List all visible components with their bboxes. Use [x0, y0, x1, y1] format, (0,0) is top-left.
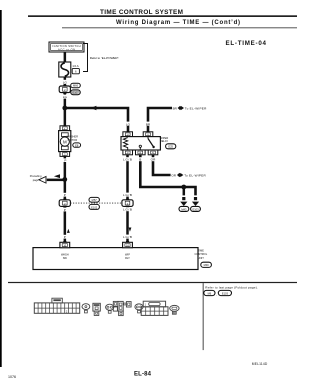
ignition switch supply box — [49, 42, 84, 52]
label P above unit pin — [63, 235, 67, 239]
svg-text:page: page — [33, 179, 39, 182]
svg-text:M49: M49 — [204, 263, 210, 267]
relay pin 6 (bottom middle) — [136, 150, 146, 155]
washer motor M1 — [59, 131, 71, 152]
svg-text:MEL114D: MEL114D — [252, 362, 268, 366]
dashed connector link line — [70, 202, 122, 204]
label LG/B above unit pin — [122, 235, 132, 239]
label LG/B above connector — [122, 193, 132, 197]
header rule 2 — [62, 27, 297, 28]
connector id oval M6 — [204, 290, 215, 295]
connector id oval E25 — [166, 144, 176, 149]
wire junction to washer motor — [64, 108, 67, 126]
svg-text:BR: BR — [173, 106, 178, 110]
svg-text:E8: E8 — [75, 143, 79, 147]
label B below relay — [138, 157, 142, 161]
wire label LG at relay — [124, 122, 132, 126]
svg-text:E103: E103 — [222, 291, 229, 295]
relay pin 5 (bottom right) — [148, 150, 158, 155]
svg-text:UNIT: UNIT — [198, 256, 204, 260]
left page-edge bar — [0, 10, 2, 367]
svg-text:M: M — [63, 139, 67, 144]
connector face grid 2 body — [141, 307, 168, 316]
svg-text:M57: M57 — [92, 198, 98, 202]
svg-text:RELAY: RELAY — [160, 139, 169, 143]
junction node A — [62, 106, 67, 111]
svg-text:M43: M43 — [181, 207, 187, 211]
relay switch contact — [147, 137, 149, 139]
connector id oval M57 — [89, 197, 99, 202]
wire label BR at relay — [144, 122, 152, 126]
svg-text:Preceding: Preceding — [30, 174, 42, 178]
svg-text:LG: LG — [63, 80, 68, 84]
in-line connector (right of pair) — [122, 199, 133, 208]
connector face T-cluster — [113, 301, 131, 315]
BR feed wire from EL-WIPER — [148, 108, 172, 132]
svg-text:1076: 1076 — [8, 375, 16, 379]
connector face square E — [93, 303, 100, 311]
svg-text:SW: SW — [63, 256, 68, 260]
svg-text:LG: LG — [63, 95, 68, 99]
wire ignition to fuse — [64, 52, 67, 62]
unit pin 10 (WASH SW) — [60, 241, 70, 248]
relay pin 2 (top left) — [123, 132, 133, 137]
page connector drop right — [194, 197, 197, 200]
svg-text:TIME: TIME — [198, 249, 204, 253]
connector face small oval 2 — [106, 304, 114, 310]
svg-text:OR: OR — [171, 173, 176, 177]
junction node B — [62, 177, 67, 182]
svg-text:P: P — [64, 193, 66, 197]
preceding page arrow — [39, 177, 46, 184]
wire preceding page to node B — [47, 179, 65, 182]
direction arrow on LG branch — [91, 106, 97, 111]
connector id oval E102 — [89, 204, 99, 209]
connector id oval E103 (note) — [218, 290, 231, 295]
svg-text:M6: M6 — [208, 291, 212, 295]
note divider line — [202, 283, 205, 350]
wire connector to junction, label LG — [64, 94, 67, 108]
direction arrow up beside wire — [67, 229, 70, 233]
svg-text:To EL-WIPER: To EL-WIPER — [185, 106, 207, 110]
connector id oval M49 — [201, 262, 212, 267]
B wire relay to page connectors — [140, 155, 195, 196]
in-line connector (2) below fuse — [59, 85, 70, 94]
relay body — [121, 137, 160, 150]
label OR below relay — [150, 157, 156, 161]
wire motor to junction B, label P — [64, 156, 67, 179]
washer motor pin 2 — [60, 152, 70, 157]
wiper relay U1 — [121, 132, 160, 155]
svg-text:WIPER: WIPER — [160, 136, 169, 140]
relay pin 1 (top right) — [143, 132, 153, 137]
svg-text:Wiring Diagram — TIME — (Cont’: Wiring Diagram — TIME — (Cont’d) — [116, 20, 240, 26]
label LG/B below relay — [122, 157, 132, 161]
svg-text:WASHER: WASHER — [67, 135, 78, 139]
svg-text:E107: E107 — [72, 91, 79, 95]
svg-text:E103: E103 — [192, 207, 199, 211]
svg-text:LG/B: LG/B — [123, 193, 132, 197]
direction arrow (left) above wire — [54, 174, 60, 178]
svg-text:LG: LG — [126, 122, 131, 126]
relay pin 7 (bottom left) — [123, 150, 133, 155]
connector face grid 2 header — [143, 301, 165, 307]
LG/B wire relay to unit — [126, 155, 129, 243]
page connector drop left — [182, 197, 185, 200]
label LG/B below connector — [122, 207, 132, 211]
svg-text:EL-84: EL-84 — [134, 372, 152, 378]
svg-text:P: P — [64, 159, 66, 163]
svg-text:WASH: WASH — [61, 252, 69, 256]
connector face M6 tab — [52, 298, 62, 303]
svg-text:BR: BR — [146, 122, 151, 126]
connector id oval E107 (gray) — [71, 90, 81, 95]
svg-text:LG/B: LG/B — [123, 208, 132, 212]
connector id oval M43 — [179, 206, 189, 211]
time control unit — [33, 248, 198, 270]
connector face small oval 1 — [82, 304, 90, 310]
svg-text:ACC or ON: ACC or ON — [58, 47, 75, 51]
LG branch wire to relay — [65, 108, 128, 132]
svg-text:IGNITION SWITCH: IGNITION SWITCH — [53, 44, 81, 48]
svg-text:Refer to last page (Foldout pa: Refer to last page (Foldout page). — [205, 286, 258, 290]
svg-text:B: B — [139, 158, 141, 162]
svg-text:10A: 10A — [72, 64, 79, 68]
wire fuse to connector, label LG — [64, 77, 67, 86]
wire connector to unit, label P — [64, 206, 67, 242]
svg-text:CONTROL: CONTROL — [194, 252, 207, 256]
connector id oval E8 — [73, 143, 81, 147]
svg-text:To EL-WIPER: To EL-WIPER — [184, 173, 206, 177]
svg-text:Refer to “EL-POWER”.: Refer to “EL-POWER”. — [90, 56, 120, 60]
in-line connector (left of pair) — [59, 199, 70, 208]
refer bracket — [83, 44, 88, 72]
svg-text:TIME CONTROL SYSTEM: TIME CONTROL SYSTEM — [100, 9, 183, 16]
connector face M6 grid — [34, 303, 79, 313]
washer motor pin 1 — [60, 126, 70, 131]
svg-text:WIP: WIP — [125, 252, 130, 256]
relay coil — [123, 138, 127, 150]
direction arrow down beside wire — [129, 228, 132, 232]
OR wire relay to EL-WIPER — [153, 155, 171, 175]
svg-text:P: P — [64, 235, 66, 239]
connector id oval E103 — [191, 206, 201, 211]
svg-text:MOTOR: MOTOR — [68, 138, 78, 142]
footer separator rule — [8, 282, 297, 283]
svg-text:E102: E102 — [91, 205, 98, 209]
svg-text:LG/B: LG/B — [123, 235, 132, 239]
unit pin 16 (WIP RLY) — [123, 241, 133, 248]
svg-text:M66: M66 — [73, 84, 79, 88]
header rule 1 — [28, 15, 297, 17]
connector face small oval 4 — [170, 305, 179, 311]
svg-text:LG/B: LG/B — [123, 158, 132, 162]
wire node B to connector, label P — [64, 179, 67, 199]
svg-text:P: P — [64, 208, 66, 212]
svg-text:OR: OR — [151, 158, 156, 162]
svg-text:E25: E25 — [168, 145, 173, 149]
fuse 10A 6 — [59, 62, 80, 77]
svg-text:RLY: RLY — [125, 256, 130, 260]
connector face small oval 3 — [135, 304, 143, 310]
svg-text:EL-TIME-04: EL-TIME-04 — [226, 40, 267, 47]
junction node C — [181, 185, 186, 190]
connector id oval M66 — [71, 83, 81, 88]
